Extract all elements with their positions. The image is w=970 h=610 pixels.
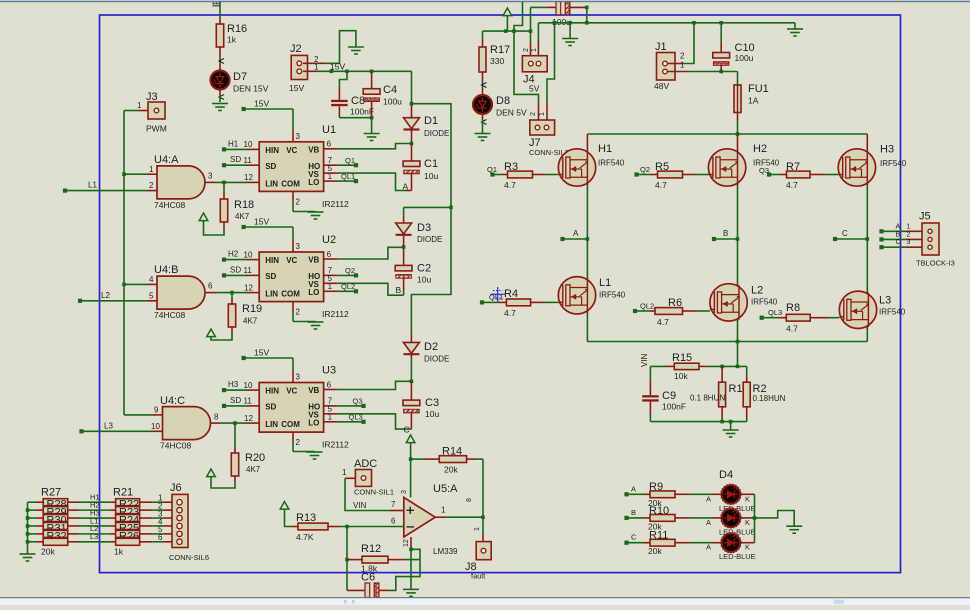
svg-text:10: 10 <box>244 250 253 259</box>
svg-text:R9: R9 <box>649 481 663 493</box>
svg-text:3: 3 <box>296 242 301 251</box>
svg-text:R8: R8 <box>786 302 800 314</box>
svg-text:R5: R5 <box>655 161 669 173</box>
svg-text:QL3: QL3 <box>768 308 782 317</box>
svg-text:Q3: Q3 <box>353 397 363 406</box>
svg-text:1: 1 <box>441 506 446 515</box>
svg-text:A: A <box>896 223 901 230</box>
svg-text:R21: R21 <box>113 487 133 499</box>
svg-text:R6: R6 <box>668 297 682 309</box>
svg-text:4K7: 4K7 <box>246 465 261 474</box>
svg-text:U3: U3 <box>322 365 336 377</box>
svg-text:1: 1 <box>474 527 481 531</box>
svg-text:0.18HUN: 0.18HUN <box>753 394 786 403</box>
svg-text:4K7: 4K7 <box>243 317 258 326</box>
svg-text:Q2: Q2 <box>345 266 355 275</box>
svg-text:SD: SD <box>265 162 276 171</box>
svg-text:R27: R27 <box>41 487 61 499</box>
svg-text:10: 10 <box>151 422 160 431</box>
svg-text:SD: SD <box>265 272 276 281</box>
svg-text:Q3: Q3 <box>759 166 769 175</box>
svg-text:4.7: 4.7 <box>657 317 669 327</box>
svg-text:C: C <box>631 533 637 542</box>
svg-text:IR2112: IR2112 <box>322 309 349 319</box>
svg-text:3: 3 <box>296 132 301 141</box>
svg-text:LIN: LIN <box>265 179 278 188</box>
svg-text:3: 3 <box>907 239 911 246</box>
svg-text:R12: R12 <box>361 543 381 555</box>
svg-text:L1: L1 <box>88 181 97 190</box>
svg-text:SD: SD <box>230 396 241 405</box>
svg-text:8: 8 <box>466 498 473 502</box>
svg-text:2: 2 <box>523 48 530 52</box>
svg-text:100u: 100u <box>735 53 754 63</box>
svg-text:B: B <box>396 285 402 295</box>
svg-text:74HC08: 74HC08 <box>154 310 185 320</box>
svg-text:12: 12 <box>244 173 253 182</box>
svg-text:6: 6 <box>327 140 332 149</box>
svg-text:15V: 15V <box>289 83 304 93</box>
svg-text:K: K <box>745 543 750 552</box>
svg-text:IRF540: IRF540 <box>599 291 626 300</box>
svg-text:C2: C2 <box>417 263 431 275</box>
svg-text:A: A <box>706 543 711 552</box>
svg-text:10: 10 <box>244 140 253 149</box>
svg-text:D7: D7 <box>233 71 247 83</box>
svg-text:1: 1 <box>149 165 154 174</box>
svg-text:R20: R20 <box>245 452 265 464</box>
svg-text:H1: H1 <box>228 139 239 148</box>
svg-text:6: 6 <box>158 533 163 542</box>
svg-text:H1: H1 <box>598 143 612 155</box>
svg-text:4.7: 4.7 <box>786 324 798 334</box>
svg-text:fault: fault <box>471 572 486 581</box>
svg-text:2: 2 <box>296 197 301 206</box>
svg-text:1: 1 <box>907 223 911 230</box>
svg-text:6: 6 <box>208 282 213 291</box>
svg-text:R7: R7 <box>786 161 800 173</box>
svg-text:10u: 10u <box>424 171 438 181</box>
svg-text:4.7: 4.7 <box>786 180 798 190</box>
svg-text:330: 330 <box>490 56 504 66</box>
svg-text:A: A <box>706 518 711 527</box>
svg-text:LIN: LIN <box>265 290 278 299</box>
svg-text:R17: R17 <box>490 44 510 56</box>
svg-text:TBLOCK-I3: TBLOCK-I3 <box>916 259 955 268</box>
svg-text:2: 2 <box>680 52 685 61</box>
svg-text:11: 11 <box>244 266 253 275</box>
svg-text:R3: R3 <box>504 161 518 173</box>
svg-text:DIODE: DIODE <box>424 129 449 138</box>
svg-text:D2: D2 <box>424 341 438 353</box>
svg-text:10u: 10u <box>417 275 431 285</box>
svg-text:H3: H3 <box>880 144 894 156</box>
svg-text:A: A <box>403 182 409 192</box>
svg-text:IRF540: IRF540 <box>879 308 906 317</box>
svg-text:LIN: LIN <box>265 420 278 429</box>
svg-text:4.7: 4.7 <box>655 180 667 190</box>
svg-text:COM: COM <box>281 420 300 429</box>
svg-text:2: 2 <box>296 438 301 447</box>
svg-text:H2: H2 <box>228 250 239 259</box>
svg-text:C9: C9 <box>662 390 676 402</box>
svg-text:C: C <box>896 239 901 246</box>
svg-text:C4: C4 <box>383 84 397 96</box>
svg-text:15V: 15V <box>254 348 269 358</box>
svg-text:B: B <box>631 508 636 517</box>
svg-text:FU1: FU1 <box>748 83 769 95</box>
svg-text:R4: R4 <box>504 288 518 300</box>
svg-text:J5: J5 <box>919 211 931 223</box>
svg-text:74HC08: 74HC08 <box>154 200 185 210</box>
svg-text:R16: R16 <box>227 23 247 35</box>
svg-text:10k: 10k <box>674 371 688 381</box>
svg-text:LO: LO <box>308 178 319 187</box>
svg-text:D1: D1 <box>424 115 438 127</box>
svg-text:R13: R13 <box>296 512 316 524</box>
svg-text:IR2112: IR2112 <box>322 440 349 450</box>
svg-text:A: A <box>573 229 579 238</box>
svg-text:K: K <box>745 494 750 503</box>
svg-text:20k: 20k <box>648 546 662 556</box>
svg-text:L2: L2 <box>101 291 110 300</box>
svg-text:LED-BLUE: LED-BLUE <box>719 552 756 561</box>
svg-text:4.7K: 4.7K <box>296 532 314 542</box>
svg-text:SD: SD <box>265 403 276 412</box>
svg-text:R14: R14 <box>442 446 462 458</box>
svg-text:U5:A: U5:A <box>433 483 458 495</box>
svg-text:1: 1 <box>137 101 142 110</box>
svg-text:J3: J3 <box>146 91 158 103</box>
svg-text:HIN: HIN <box>265 256 279 265</box>
svg-text:2: 2 <box>907 231 911 238</box>
svg-text:Q1: Q1 <box>345 156 355 165</box>
svg-text:10u: 10u <box>425 409 439 419</box>
svg-text:100nF: 100nF <box>662 402 686 412</box>
svg-text:VC: VC <box>286 387 297 396</box>
svg-text:R19: R19 <box>242 303 262 315</box>
svg-text:12: 12 <box>403 539 410 547</box>
svg-text:DIODE: DIODE <box>424 355 449 364</box>
svg-text:L3: L3 <box>90 532 98 541</box>
svg-text:A: A <box>631 484 636 493</box>
svg-text:74HC08: 74HC08 <box>160 441 191 451</box>
svg-text:6: 6 <box>327 380 332 389</box>
svg-text:5: 5 <box>149 291 154 300</box>
svg-text:K: K <box>745 518 750 527</box>
svg-text:1: 1 <box>680 61 685 70</box>
svg-text:3: 3 <box>208 172 213 181</box>
svg-text:U2: U2 <box>322 234 336 246</box>
svg-text:R10: R10 <box>649 505 669 517</box>
svg-text:12: 12 <box>244 414 253 423</box>
svg-text:DEN 15V: DEN 15V <box>233 84 269 94</box>
svg-text:D8: D8 <box>496 95 510 107</box>
svg-text:C: C <box>404 425 410 435</box>
svg-text:U4:A: U4:A <box>154 154 179 166</box>
svg-text:LM339: LM339 <box>433 547 458 556</box>
svg-text:20k: 20k <box>41 547 55 557</box>
svg-text:COM: COM <box>281 179 300 188</box>
svg-text:L3: L3 <box>879 295 891 307</box>
svg-text:Q2: Q2 <box>640 165 650 174</box>
svg-text:SD: SD <box>230 265 241 274</box>
svg-text:LO: LO <box>308 288 319 297</box>
svg-text:15V: 15V <box>330 62 345 72</box>
svg-text:6: 6 <box>327 250 332 259</box>
svg-text:SD: SD <box>230 155 241 164</box>
svg-text:B: B <box>723 229 728 238</box>
svg-text:IRF540: IRF540 <box>751 298 778 307</box>
svg-text:R15: R15 <box>672 352 692 364</box>
svg-text:8: 8 <box>214 413 219 422</box>
svg-text:R1: R1 <box>729 383 743 395</box>
svg-text:LO: LO <box>308 419 319 428</box>
svg-text:HIN: HIN <box>265 146 279 155</box>
svg-text:C: C <box>842 229 848 238</box>
svg-text:IRF540: IRF540 <box>880 159 907 168</box>
svg-text:J2: J2 <box>290 43 302 55</box>
svg-text:L2: L2 <box>751 285 763 297</box>
svg-text:4.7: 4.7 <box>504 180 516 190</box>
svg-text:100u: 100u <box>383 97 402 107</box>
svg-text:IRF540: IRF540 <box>598 159 625 168</box>
svg-text:DEN 5V: DEN 5V <box>496 108 527 118</box>
svg-text:L3: L3 <box>104 421 113 430</box>
svg-text:CONN-SIL1: CONN-SIL1 <box>354 488 394 497</box>
svg-text:L1: L1 <box>599 277 611 289</box>
svg-text:11: 11 <box>244 156 253 165</box>
svg-text:U1: U1 <box>322 124 336 136</box>
svg-text:12: 12 <box>244 283 253 292</box>
svg-text:HIN: HIN <box>265 387 279 396</box>
svg-text:U4:B: U4:B <box>154 264 178 276</box>
svg-text:VIN: VIN <box>353 501 367 510</box>
svg-text:J1: J1 <box>655 41 667 53</box>
svg-text:R11: R11 <box>649 529 668 541</box>
svg-text:A: A <box>706 494 711 503</box>
svg-text:U4:C: U4:C <box>160 395 185 407</box>
svg-text:3: 3 <box>401 490 408 494</box>
svg-text:DIODE: DIODE <box>417 235 442 244</box>
svg-text:100nF: 100nF <box>350 107 374 117</box>
svg-text:COM: COM <box>281 290 300 299</box>
svg-text:C6: C6 <box>361 572 375 584</box>
svg-text:VB: VB <box>308 386 319 395</box>
svg-text:1k: 1k <box>114 547 124 557</box>
svg-text:VC: VC <box>286 146 297 155</box>
svg-text:0.1 8HUN: 0.1 8HUN <box>690 394 725 403</box>
svg-text:C8: C8 <box>351 95 365 107</box>
svg-text:H2: H2 <box>753 143 767 155</box>
svg-text:7: 7 <box>391 500 396 509</box>
svg-text:C1: C1 <box>424 158 438 170</box>
svg-text:1: 1 <box>531 48 538 52</box>
svg-text:VB: VB <box>308 145 319 154</box>
svg-text:15V: 15V <box>254 217 269 227</box>
svg-text:10: 10 <box>244 381 253 390</box>
svg-text:2: 2 <box>149 181 154 190</box>
svg-text:1: 1 <box>342 468 347 477</box>
svg-text:1: 1 <box>539 112 546 116</box>
svg-text:4.7: 4.7 <box>504 308 516 318</box>
svg-text:Q1: Q1 <box>487 165 497 174</box>
svg-text:PWM: PWM <box>146 124 167 134</box>
svg-text:9: 9 <box>154 406 159 415</box>
svg-text:1A: 1A <box>748 96 759 106</box>
svg-text:15V: 15V <box>254 99 269 109</box>
svg-text:IR2112: IR2112 <box>322 199 349 209</box>
svg-text:C3: C3 <box>425 397 439 409</box>
svg-text:ADC: ADC <box>354 458 377 470</box>
svg-text:R18: R18 <box>234 199 254 211</box>
svg-text:CONN-SIL6: CONN-SIL6 <box>169 553 209 562</box>
svg-text:H3: H3 <box>228 380 239 389</box>
svg-text:5V: 5V <box>529 84 540 94</box>
svg-text:2: 2 <box>296 308 301 317</box>
svg-text:B: B <box>896 231 901 238</box>
svg-text:VIN: VIN <box>640 353 649 367</box>
svg-text:D4: D4 <box>719 469 733 481</box>
svg-text:VB: VB <box>308 256 319 265</box>
svg-text:J6: J6 <box>170 482 182 494</box>
svg-text:48V: 48V <box>654 81 669 91</box>
svg-text:6: 6 <box>391 517 396 526</box>
svg-text:2: 2 <box>530 112 537 116</box>
svg-text:11: 11 <box>244 397 253 406</box>
svg-text:4: 4 <box>149 275 154 284</box>
svg-text:1k: 1k <box>227 35 237 45</box>
svg-text:20k: 20k <box>444 465 458 475</box>
svg-text:3: 3 <box>296 373 301 382</box>
svg-text:4K7: 4K7 <box>235 212 250 221</box>
svg-text:VC: VC <box>286 256 297 265</box>
svg-text:D3: D3 <box>417 222 431 234</box>
svg-text:QL2: QL2 <box>640 302 654 311</box>
